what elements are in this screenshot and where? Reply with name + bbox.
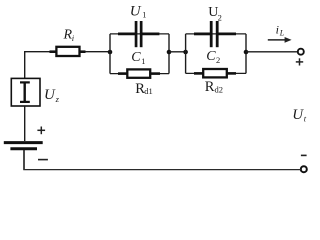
label Rd2 [205,79,223,95]
label − (battery) [38,159,48,161]
svg-text:2: 2 [218,12,222,22]
wire battery to bottom rail [23,150,25,170]
wire box to battery [24,106,26,141]
svg-text:U: U [130,3,142,19]
wire top-left corner (left rail up + top run to Ri) [25,52,51,78]
label UZ [44,87,60,104]
label Ut [292,107,307,124]
svg-text:U: U [292,107,304,123]
wire Ri to node A [85,51,110,53]
resistor Ri [50,47,86,56]
label U2 [208,5,222,22]
svg-text:U: U [44,87,56,103]
wire block2 left rail [185,34,187,74]
battery cell [4,143,43,149]
wire block1 right rail [168,34,170,74]
svg-text:C: C [206,49,216,64]
capacitor C2 [194,21,236,47]
wire block2 top branch [186,33,246,35]
wire block2 bottom branch [186,72,246,74]
svg-text:i: i [276,23,279,37]
wire block2 right rail [245,34,247,74]
wire bottom rail [23,169,301,171]
svg-text:d1: d1 [144,86,153,96]
svg-text:C: C [131,50,141,65]
capacitor C1 [118,21,159,47]
terminal negative (open circle) [301,166,307,172]
wire block1 left rail [109,34,111,74]
label C1 [131,50,145,66]
label C2 [206,49,220,65]
wire block1 top branch [110,33,169,35]
svg-text:1: 1 [141,56,145,66]
wire between blocks [169,51,186,53]
label + (output) [296,58,303,65]
source UZ (box with I symbol) [11,78,40,106]
label − (output) [301,154,307,156]
node block2 output dot [244,50,249,55]
svg-text:L: L [279,29,285,38]
svg-text:z: z [55,94,60,104]
resistor Rd1 [118,69,160,77]
svg-text:1: 1 [142,10,146,20]
svg-text:R: R [205,79,215,95]
resistor Rd2 [194,69,236,77]
wire block1 bottom branch [110,73,169,75]
label Rd1 [135,81,153,97]
svg-text:2: 2 [216,55,220,65]
node A (junction dot) [108,50,113,55]
label Ri [63,28,75,44]
node block1 output dot [167,50,172,55]
wire to positive terminal [246,51,298,53]
arrow iL (load current) [268,37,292,43]
svg-text:d2: d2 [215,84,224,94]
node block2 input dot [183,50,188,55]
label + (battery) [37,127,45,135]
terminal positive (open circle) [298,49,304,55]
label iL [276,23,285,38]
label U1 [130,3,147,19]
